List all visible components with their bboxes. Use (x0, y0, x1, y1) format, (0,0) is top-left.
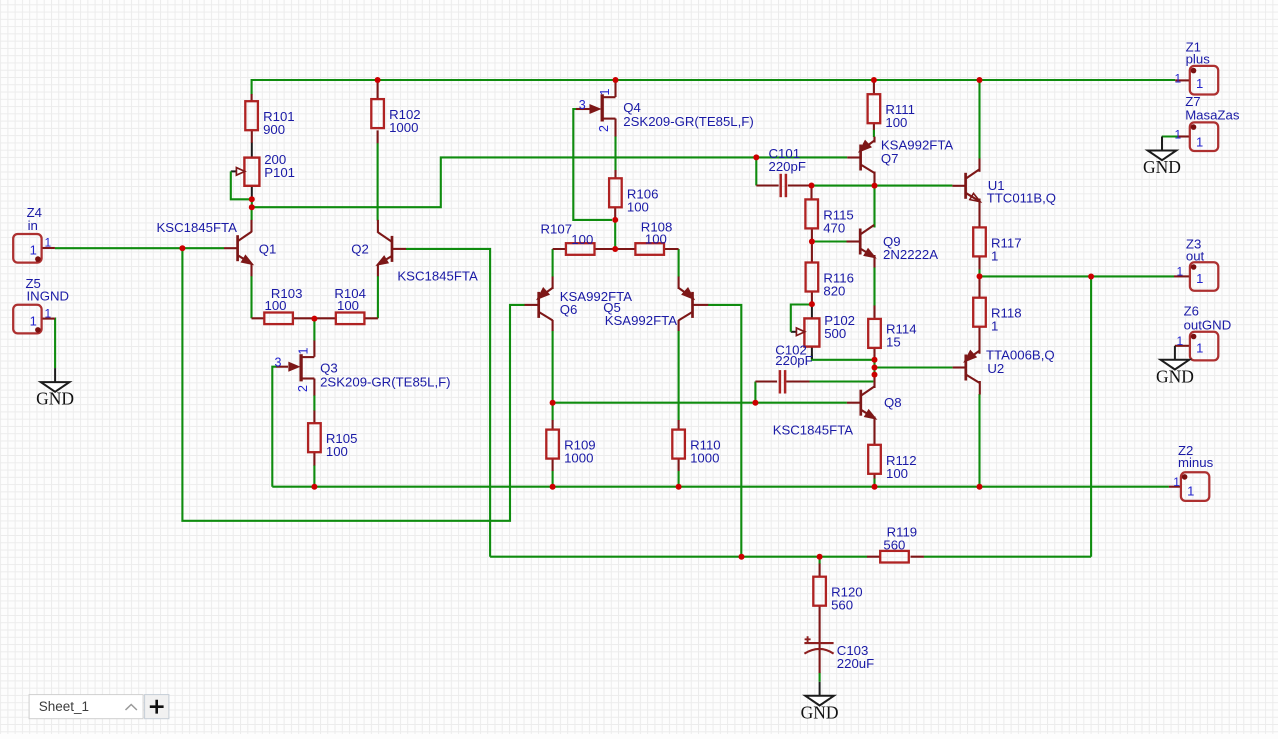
wire U1 base lead (952, 185, 965, 187)
wire Q1 base lead (224, 247, 237, 249)
wire P101 junction down to Q1 collector (251, 207, 253, 220)
transistor Q3 2SK209 JFET (289, 354, 314, 381)
ground at Z7 MasaZas (1148, 137, 1177, 161)
wire C101 branch down (755, 157, 757, 185)
wire Q2 base right and down (406, 249, 490, 557)
svg-text:1: 1 (1175, 128, 1182, 142)
svg-text:1: 1 (45, 236, 52, 250)
wire R107 leads (553, 248, 616, 250)
wire C102 right lead to Q8 collector node (809, 380, 873, 382)
wire P101 wiper tail (black) (231, 170, 237, 172)
wire C102 leads (755, 380, 809, 382)
svg-text:3: 3 (579, 98, 586, 112)
wire R118 leads (978, 276, 980, 353)
svg-text:220uF: 220uF (837, 656, 874, 671)
svg-text:1: 1 (30, 313, 37, 328)
svg-text:Q7: Q7 (881, 151, 899, 166)
svg-text:KSC1845FTA: KSC1845FTA (397, 269, 478, 284)
wire Q9 emitter lead (873, 255, 875, 268)
svg-text:1: 1 (1187, 484, 1194, 499)
node Q7 collector tee (872, 183, 878, 189)
wire long emitter rail (272, 486, 1169, 488)
node P101 wiper junction (249, 196, 255, 202)
wire Q1 emitter down to R103 (250, 276, 252, 318)
wire Q8 base line (553, 402, 847, 404)
svg-text:900: 900 (263, 122, 285, 137)
ground at Z5 INGND (41, 368, 70, 392)
node P101 output junction (249, 204, 255, 210)
ground at C103 (805, 682, 834, 706)
resistor R101 (245, 101, 294, 137)
wire R110 leads (678, 420, 680, 471)
wire R114 bottom node stack (873, 360, 875, 375)
svg-text:2: 2 (597, 125, 611, 132)
svg-text:1: 1 (598, 88, 612, 95)
wire C103 bottom lead (819, 644, 821, 674)
potentiometer P102 (796, 313, 855, 347)
node U2 base tee (872, 365, 878, 371)
wire Q6 base lead (525, 304, 539, 306)
capacitor C103 220uF polarized (804, 636, 833, 653)
wire bottom rail to R119 and Z3 riser (490, 556, 1091, 558)
node U2 collector at rail (977, 484, 983, 490)
wire Q4 gate loop to R106 bottom node (573, 109, 612, 220)
node C102/Q8 collector (872, 372, 878, 378)
connector Z3 (out) (1177, 237, 1219, 291)
wire Q5 base lead (693, 304, 709, 306)
svg-text:15: 15 (886, 335, 901, 350)
node U1 collector at rail (977, 77, 983, 83)
wire C101 leads (756, 184, 811, 186)
wire Q8 collector lead (873, 375, 875, 388)
wire top supply rail (252, 80, 1176, 95)
wire Z6 pin stub (1175, 345, 1190, 347)
svg-text:Q8: Q8 (884, 395, 902, 410)
wire Q4 drain lead (614, 81, 616, 98)
svg-text:P101: P101 (264, 165, 295, 180)
svg-text:820: 820 (823, 284, 845, 299)
wire U2 collector down to emitter rail (978, 394, 980, 487)
wire R106 leads (614, 170, 616, 220)
svg-text:outGND: outGND (1184, 317, 1232, 332)
wire Q6 collector node down to R109 (552, 403, 554, 421)
sheet tab bar (29, 695, 143, 719)
node Z4/Q1 base tee (179, 245, 185, 251)
svg-text:1: 1 (1175, 71, 1182, 85)
svg-text:2: 2 (296, 385, 310, 392)
svg-text:Q3: Q3 (320, 360, 338, 375)
node Q5 base at bottom rail (739, 554, 745, 560)
svg-text:GND: GND (1156, 366, 1194, 386)
svg-text:TTC011B,Q: TTC011B,Q (987, 190, 1056, 205)
wire Q7 collector lead (873, 172, 875, 185)
wire R106 bottom to R107/R108 node (614, 220, 616, 249)
wire R108 leads (615, 248, 678, 250)
node R110 bottom (676, 484, 682, 490)
wire Q5 base down to bottom rail (708, 305, 741, 557)
svg-text:GND: GND (36, 389, 74, 409)
wire R105 leads (313, 411, 315, 466)
wire Z5 to ground (54, 319, 56, 369)
wire R117/R118 node to Z3 (980, 275, 1175, 277)
wire R110 bottom (678, 471, 680, 487)
wire Q9 emitter to R114 (873, 267, 875, 306)
svg-text:2SK209-GR(TE85L,F): 2SK209-GR(TE85L,F) (623, 114, 753, 129)
node Q4 drain at rail (613, 77, 619, 83)
svg-text:KSA992FTA: KSA992FTA (605, 313, 678, 328)
wire R119 leads (867, 556, 924, 558)
transistor Q5 KSA992FTA (679, 288, 694, 321)
wire R107 left lead down to Q6 emitter (552, 249, 554, 277)
node R111 top (871, 77, 877, 83)
wire U2 base line (875, 366, 953, 368)
svg-text:1: 1 (1196, 271, 1203, 286)
wire Q3 gate lead (276, 366, 288, 368)
wire Q3 drain from R103/R104 node (313, 319, 315, 341)
svg-text:100: 100 (337, 298, 359, 313)
node R116/P102 (809, 301, 815, 307)
wire Z1 pin stub (1175, 79, 1190, 81)
resistor R112 (868, 445, 916, 481)
resistor R120 (813, 577, 862, 613)
node C102/Q8 base (752, 400, 758, 406)
wire Z3 pin stub (1174, 275, 1190, 277)
connector Z1 (plus) (1175, 40, 1219, 95)
transistor Q8 KSC1845FTA (861, 386, 876, 418)
resistor R118 (973, 298, 1021, 334)
wire Q4 source to R106 (614, 136, 616, 171)
svg-text:100: 100 (885, 115, 907, 130)
wire Q6 emitter/collector leads (552, 277, 554, 332)
svg-text:Z6: Z6 (1184, 304, 1199, 319)
node R114 bottom (872, 357, 878, 363)
wire Q3 source lead (313, 379, 315, 396)
resistor R104 (334, 286, 366, 324)
wire Q4 source lead (614, 119, 616, 137)
wire R116 leads (811, 242, 813, 305)
connector Z4 (in) (13, 205, 51, 262)
svg-text:100: 100 (571, 232, 593, 247)
wire R111 leads (873, 80, 875, 129)
wire C103 to gnd (819, 673, 821, 682)
wire R115 leads (810, 186, 813, 242)
wire Q9 base lead (847, 240, 860, 242)
wire C102 left branch (754, 382, 756, 403)
svg-text:Q2: Q2 (351, 241, 369, 256)
wire Q4 gate lead (576, 108, 590, 110)
svg-text:1: 1 (1196, 135, 1203, 150)
wire Z7 gnd link (1162, 135, 1178, 137)
svg-text:1: 1 (30, 243, 37, 258)
transistor U1 TTC011B (966, 169, 981, 201)
wire Z2 pin stub (1169, 486, 1181, 488)
node Z3 riser tee (1088, 274, 1094, 280)
resistor R106 (609, 178, 658, 214)
svg-text:KSC1845FTA: KSC1845FTA (157, 220, 238, 235)
svg-text:out: out (1186, 249, 1205, 264)
svg-text:1: 1 (1196, 76, 1203, 91)
wire Q7 emitter lead (873, 137, 875, 143)
ground at Z6 outGND (1161, 346, 1190, 370)
svg-text:R107: R107 (541, 222, 573, 237)
resistor R110 (672, 430, 720, 466)
svg-text:560: 560 (831, 598, 853, 613)
capacitor C101 (781, 174, 786, 197)
wire P102 wiper tail (black) (791, 331, 798, 333)
connector Z6 (outGND) (1177, 304, 1232, 361)
wire R112 bottom lead (873, 474, 875, 479)
resistor R117 (973, 227, 1021, 263)
transistor U2 TTA006B (965, 351, 980, 384)
svg-text:KSC1845FTA: KSC1845FTA (773, 423, 854, 438)
wire Q3 drain lead (313, 341, 315, 357)
transistor Q7 KSA992FTA (860, 141, 875, 174)
svg-text:2N2222A: 2N2222A (883, 247, 938, 262)
wire Q7 base lead (847, 156, 860, 158)
wire Q5 emitter/collector leads (678, 277, 680, 332)
wire R112 bottom (873, 478, 875, 487)
wire R101 leads (251, 94, 253, 143)
svg-text:1: 1 (1173, 475, 1180, 489)
node R117/R118/Z3 (977, 273, 983, 279)
svg-text:3: 3 (275, 355, 282, 369)
node R103/R104/Q3 drain (311, 316, 317, 322)
transistor Q6 KSA992FTA (538, 288, 553, 321)
wire P102 wiper loop (791, 305, 810, 332)
svg-text:1000: 1000 (690, 451, 719, 466)
wire P102 bottom to R114 bottom node (812, 355, 875, 360)
svg-text:MasaZas: MasaZas (1185, 108, 1240, 123)
transistor Q9 2N2222A (860, 225, 875, 257)
wire R117 bottom node (978, 269, 980, 276)
transistor Q4 2SK209 JFET (590, 94, 615, 121)
resistor R102 (371, 99, 420, 135)
connector Z2 (minus) (1173, 443, 1213, 501)
wire Z4 to Q1 base (55, 247, 224, 249)
potentiometer P101 (236, 152, 295, 186)
wire R116-P102 link (black) (811, 305, 813, 319)
svg-text:1: 1 (45, 306, 52, 320)
wire Z4 pin stub (43, 247, 55, 249)
wire R103 leads (252, 317, 315, 319)
capacitor C102 (780, 370, 785, 393)
svg-text:1: 1 (1196, 341, 1203, 356)
wire U2 base lead (953, 366, 966, 368)
wire R104 leads (314, 317, 378, 319)
wire R109 bottom (552, 471, 554, 487)
wire R109 leads (552, 420, 554, 471)
wire P101 bottom junction to C101 branch (252, 157, 847, 207)
wire U2 collector lead (979, 381, 981, 395)
svg-text:100: 100 (886, 466, 908, 481)
svg-text:1: 1 (297, 347, 311, 354)
resistor R108 (635, 220, 672, 255)
wire Q9 base from R115/R116 node (812, 240, 847, 242)
svg-text:plus: plus (1186, 51, 1211, 66)
svg-text:100: 100 (326, 444, 348, 459)
connector Z5 (INGND) (13, 276, 69, 333)
svg-text:Sheet_1: Sheet_1 (39, 699, 89, 714)
resistor R119 (880, 525, 917, 563)
wire U1 collector from rail (978, 80, 980, 159)
wire Q2 emitter up from R104 (377, 276, 379, 318)
svg-text:in: in (28, 218, 38, 233)
resistor R109 (546, 430, 595, 466)
svg-text:1: 1 (991, 319, 998, 334)
wire R114 leads (873, 306, 875, 360)
svg-text:560: 560 (883, 538, 905, 553)
svg-text:220pF: 220pF (775, 353, 812, 368)
wire R105 bottom (313, 465, 315, 487)
wire Q3 source to R105 (313, 395, 315, 411)
node R115/R116/Q9 base (809, 239, 815, 245)
wire R102 leads (377, 81, 379, 144)
node C101/R115 (809, 183, 815, 189)
transistor Q2 KSC1845FTA (377, 232, 392, 264)
resistor R105 (308, 423, 357, 459)
wire U1 emitter to R117 (978, 199, 980, 228)
node R106 bottom/Q4 gate (612, 217, 618, 223)
svg-text:1000: 1000 (389, 120, 418, 135)
resistor R103 (264, 286, 302, 324)
wire Q5 collector down to R110 (678, 331, 680, 421)
connector Z7 (MasaZas) (1175, 94, 1240, 151)
wire Q6 collector to Q8 base line (552, 331, 554, 403)
wire R108 right lead down to Q5 emitter (678, 249, 680, 277)
svg-text:Q4: Q4 (623, 100, 641, 115)
wire R101-P101 link (black) (251, 142, 253, 157)
node Q6 collector tee (550, 400, 556, 406)
resistor R116 (806, 263, 854, 299)
svg-text:Q6: Q6 (560, 302, 578, 317)
node R102 top (375, 77, 381, 83)
wire Q8 emitter to R112 (873, 417, 875, 445)
svg-text:100: 100 (645, 232, 667, 247)
wire R117 bottom lead (978, 256, 980, 269)
add sheet button (145, 695, 169, 719)
resistor R111 (868, 94, 915, 130)
wire Q7 collector node down to Q9 collector (873, 184, 875, 228)
node R112 bottom (872, 484, 878, 490)
wire Q3 gate to source-degeneration rail (272, 367, 276, 487)
wire R120 top (819, 557, 821, 564)
wire Z5 pin stub (43, 318, 55, 320)
svg-text:500: 500 (824, 326, 846, 341)
wire Q8 base lead (847, 402, 860, 404)
svg-text:2SK209-GR(TE85L,F): 2SK209-GR(TE85L,F) (320, 374, 450, 389)
svg-text:1: 1 (991, 248, 998, 263)
wire R120 leads (819, 564, 821, 643)
svg-text:220pF: 220pF (769, 159, 806, 174)
svg-text:INGND: INGND (27, 289, 70, 304)
node R105 bottom (311, 484, 317, 490)
transistor Q1 KSC1845FTA (238, 232, 253, 264)
node R120 top (817, 554, 823, 560)
wire U1 collector lead (978, 159, 980, 172)
svg-text:U2: U2 (987, 361, 1004, 376)
svg-text:100: 100 (627, 199, 649, 214)
wire R102 bottom to Q2 collector (377, 143, 379, 221)
wire Z3 riser (1090, 277, 1092, 557)
node R107/R108 center (612, 246, 618, 252)
svg-text:1: 1 (1177, 334, 1184, 348)
wire P102 wiper lead (798, 331, 803, 333)
wire C101 right to Q7 collector node to U1 base (812, 185, 953, 187)
wire node feedback: Q1-base tee down, across, up to Q6 base (182, 248, 524, 521)
wire Q2 collector/emitter stubs (377, 220, 379, 276)
svg-text:GND: GND (1143, 157, 1181, 177)
svg-text:Q1: Q1 (259, 241, 277, 256)
wire Z7 pin stub (1178, 135, 1190, 137)
svg-text:1000: 1000 (564, 451, 593, 466)
node C101 tee (753, 154, 759, 160)
wire P101 wiper loop (231, 171, 249, 199)
svg-text:minus: minus (1178, 455, 1214, 470)
svg-text:470: 470 (823, 220, 845, 235)
svg-text:GND: GND (801, 702, 839, 722)
node R109 bottom (550, 484, 556, 490)
wire Q2 base lead (392, 248, 406, 250)
wire R111 to Q7 emitter (873, 129, 875, 137)
wire Q1 collector/emitter stubs (250, 220, 252, 276)
resistor R115 (805, 199, 853, 235)
resistor R114 (868, 319, 916, 350)
svg-text:1: 1 (1177, 265, 1184, 279)
wire P101 bottom lead (black) (251, 186, 253, 198)
svg-text:100: 100 (265, 298, 287, 313)
resistor R107 (541, 222, 595, 255)
wire P102 bottom lead (black) (811, 347, 813, 359)
